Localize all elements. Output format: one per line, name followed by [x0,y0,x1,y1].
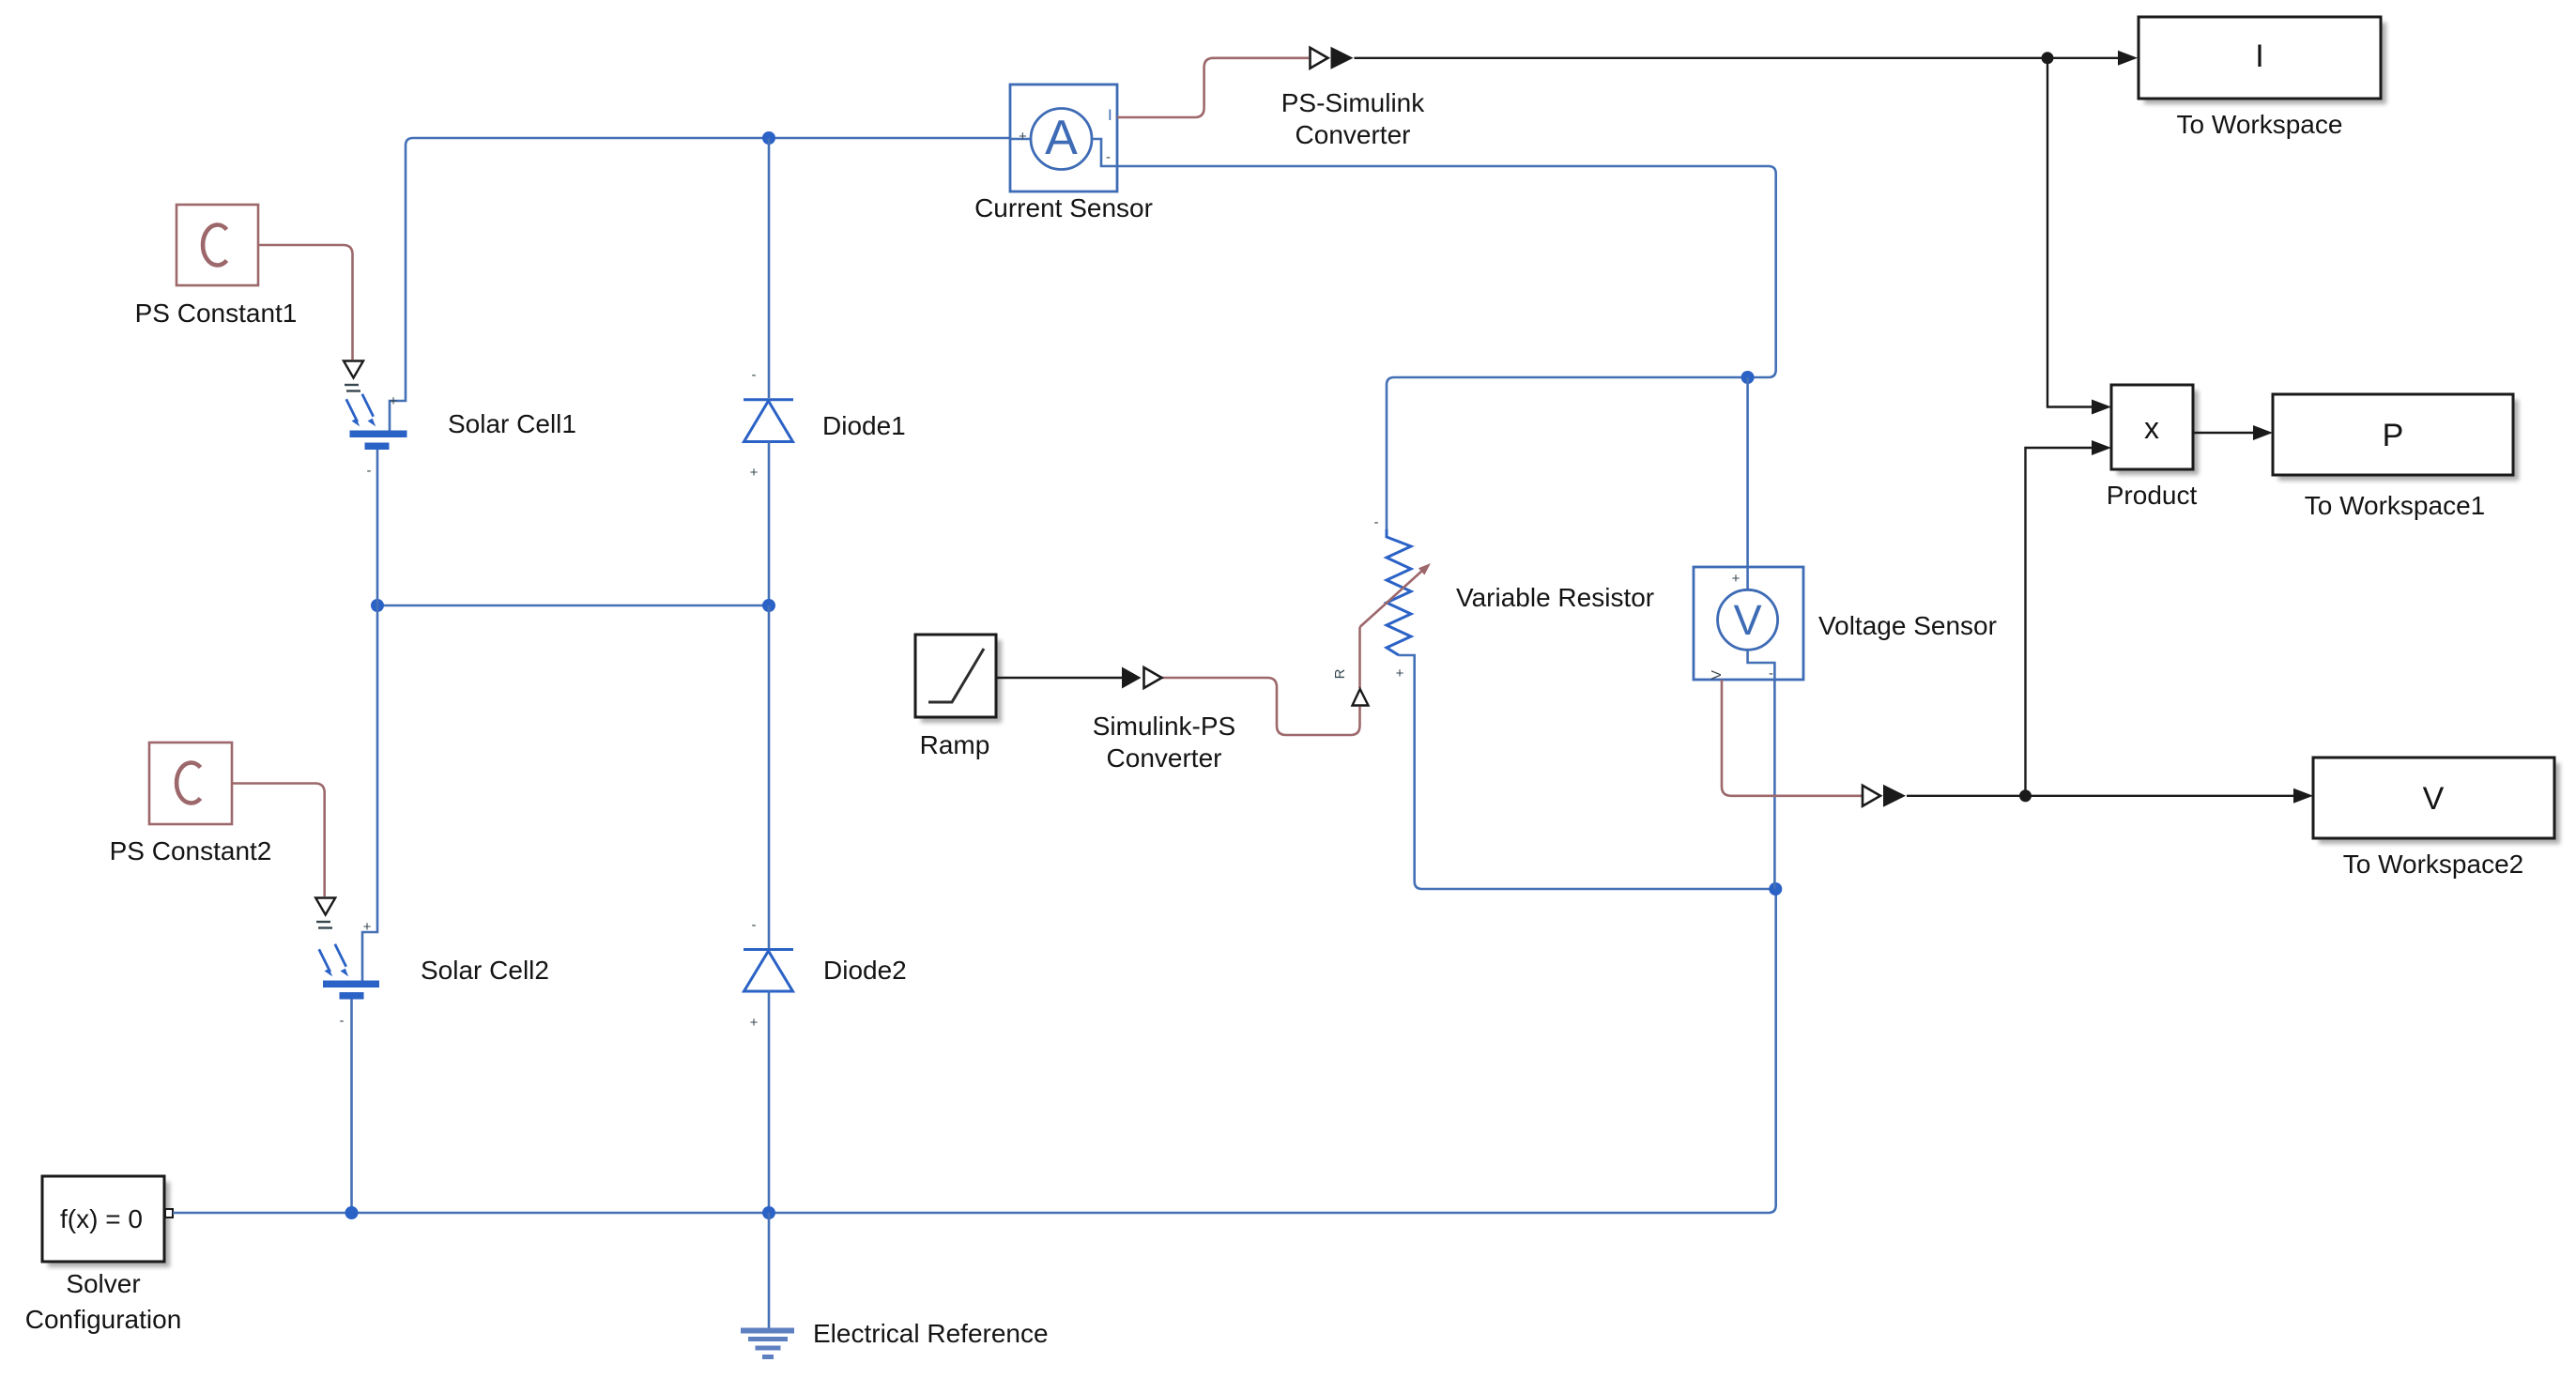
svg-text:f(x) = 0: f(x) = 0 [60,1204,143,1233]
pin + label of Solar Cell2 [363,919,372,935]
pin + label of Diode2 [750,1015,759,1031]
label Product [2107,481,2198,510]
svg-text:-: - [367,463,372,479]
label Solar Cell1 [448,409,576,438]
resistor R1 (Variable Resistor) zigzag [1387,529,1411,655]
svg-text:-: - [1106,149,1111,165]
node V signal branch [2019,789,2032,802]
wire Voltage Sensor + branch [1746,377,1749,567]
port R triangle of Variable Resistor [1353,689,1369,706]
node mid left [371,599,384,612]
svg-text:V: V [1709,670,1725,680]
wire V branch up to Product in2 [2026,440,2112,796]
label PS Constant2 [110,836,272,865]
svg-text:Variable Resistor: Variable Resistor [1456,583,1654,612]
port Ir rotated label of Solar Cell2 [316,922,332,928]
svg-text:+: + [1732,571,1740,587]
wire Voltage Sensor V output (physical signal) [1722,680,1862,796]
label To Workspace2 [2343,850,2523,879]
block Current Sensor U1 [1010,84,1117,191]
wire Solar Cell1 - terminal down to mid node [376,450,379,605]
block To Workspace (I) [2139,17,2386,104]
svg-text:PS Constant2: PS Constant2 [110,836,272,865]
port Ir rotated label of Solar Cell1 [345,385,360,391]
svg-text:+: + [1396,666,1404,681]
label Solver Configuration [25,1269,182,1334]
wire Diode1 anode down to mid node [768,442,771,606]
wire R port of Variable Resistor (physical signal) [1358,627,1361,688]
wire Variable Resistor + to bottom junction [1399,655,1775,889]
svg-text:To Workspace: To Workspace [2177,110,2343,139]
port R rotated label of Variable Resistor [1332,668,1348,679]
svg-text:V: V [2423,781,2445,817]
svg-text:Ramp: Ramp [920,730,990,759]
svg-text:+: + [750,1015,759,1031]
svg-text:P: P [2383,418,2404,453]
label Ramp [920,730,990,759]
wire Solar Cell2 - terminal down to bottom rail [350,1000,353,1214]
label To Workspace1 [2305,491,2485,520]
label Current Sensor [974,193,1153,222]
svg-text:V: V [1734,596,1762,644]
svg-text:-: - [752,367,757,383]
label Electrical Reference [813,1319,1049,1348]
wire PS Constant2 to Solar Cell2 Ir port [232,784,325,897]
block PS Constant1 [176,205,258,285]
wire bottom rail [173,889,1776,1213]
svg-text:+: + [1019,129,1027,145]
pin - label of Solar Cell1 [367,463,372,479]
converter PS-Simulink 2 (icon) [1863,785,1906,807]
node bottom rail / Solar Cell2 [345,1206,359,1219]
ground Electrical Reference [741,1213,794,1357]
svg-text:x: x [2144,411,2159,445]
converter PS-Simulink (icon) [1311,47,1354,69]
wire Ramp output signal [996,677,1123,679]
svg-text:Diode1: Diode1 [822,411,906,440]
svg-text:To Workspace2: To Workspace2 [2343,850,2523,879]
svg-text:To Workspace1: To Workspace1 [2305,491,2485,520]
block Ramp [915,635,1002,723]
wire Product output to To Workspace1 [2193,425,2273,440]
svg-text:Configuration: Configuration [25,1305,182,1334]
pin - label of Diode1 [752,367,757,383]
svg-text:Converter: Converter [1107,743,1222,773]
wire top rail from Solar Cell1 + to Current Sensor [390,138,1010,431]
label Diode2 [823,956,907,985]
wire Current Sensor I output (physical signal) [1117,58,1309,117]
node mid right [762,599,775,612]
port Ir triangle of Solar Cell2 [315,898,335,915]
svg-text:+: + [390,393,398,409]
svg-text:PS-Simulink: PS-Simulink [1281,88,1425,117]
node bottom junction (Voltage Sensor -) [1769,882,1782,896]
svg-text:Solar Cell1: Solar Cell1 [448,409,576,438]
svg-text:Product: Product [2107,481,2198,510]
svg-text:Diode2: Diode2 [823,956,907,985]
svg-text:-: - [752,917,757,933]
label Diode1 [822,411,906,440]
svg-text:-: - [1769,666,1773,681]
converter Simulink-PS (icon) [1122,667,1162,689]
label PS-Simulink Converter [1281,88,1425,149]
block To Workspace2 (V) [2313,758,2560,844]
wire V signal to To Workspace2 [1907,789,2313,804]
wire Current Sensor - to Variable Resistor top [1117,166,1776,529]
svg-text:Solver: Solver [66,1269,140,1298]
wire Simulink-PS Converter to R port [1162,678,1360,735]
svg-text:Simulink-PS: Simulink-PS [1093,712,1235,741]
label Simulink-PS Converter [1093,712,1235,773]
node bottom rail / Electrical Reference [762,1206,775,1219]
label Variable Resistor [1456,583,1654,612]
block Solver Configuration [42,1176,173,1267]
pin - label of Diode2 [752,917,757,933]
node I signal branch [2042,52,2054,64]
wire I branch down to Product in1 [2047,58,2111,415]
node Voltage Sensor + branch [1741,371,1755,384]
block Voltage Sensor U2 [1694,567,1803,681]
svg-text:A: A [1045,111,1078,165]
label Solar Cell2 [421,956,549,985]
svg-text:PS Constant1: PS Constant1 [135,299,298,328]
svg-text:Solar Cell2: Solar Cell2 [421,956,549,985]
svg-text:+: + [750,465,759,481]
svg-text:+: + [363,919,372,935]
svg-text:Voltage Sensor: Voltage Sensor [1818,611,1997,640]
wire Diode2 cathode to mid node [768,605,771,948]
svg-text:Electrical Reference: Electrical Reference [813,1319,1049,1348]
pin - label of Solar Cell2 [340,1013,345,1029]
block PS Constant2 [149,743,232,824]
svg-text:-: - [1374,514,1379,530]
label PS Constant1 [135,299,298,328]
diode D1 (Diode1) [744,400,793,442]
wire mid cross connection [377,605,769,607]
pin + label of Solar Cell1 [390,393,398,409]
resistor wiper arrow of Variable Resistor [1360,563,1432,627]
svg-text:R: R [1332,668,1348,679]
solar cell SC2 (Solar Cell2) [319,944,379,1000]
wire mid node down to Solar Cell2 + [362,605,377,981]
pin - label of Variable Resistor [1374,514,1379,530]
label Voltage Sensor [1818,611,1997,640]
svg-text:I: I [2255,38,2263,74]
pin + label of Variable Resistor [1396,666,1404,681]
svg-text:-: - [340,1013,345,1029]
wire Diode1 cathode to top rail [768,138,771,398]
svg-text:I: I [1108,106,1112,124]
label To Workspace [2177,110,2343,139]
pin + label of Diode1 [750,465,759,481]
wire Diode2 anode down to bottom rail [768,991,771,1213]
node top rail / Diode1 junction [762,131,775,145]
wire PS Constant1 to Solar Cell1 Ir port [258,245,353,360]
port Ir triangle of Solar Cell1 [344,361,363,378]
solar cell SC1 (Solar Cell1) [346,394,407,450]
wire Voltage Sensor - down to bottom junction [1773,680,1776,889]
svg-text:Converter: Converter [1296,120,1411,149]
block To Workspace1 (P) [2273,394,2519,481]
svg-text:Current Sensor: Current Sensor [974,193,1153,222]
wire I signal to To Workspace [1355,51,2139,66]
block Product [2111,385,2199,475]
diode D2 (Diode2) [744,950,793,992]
